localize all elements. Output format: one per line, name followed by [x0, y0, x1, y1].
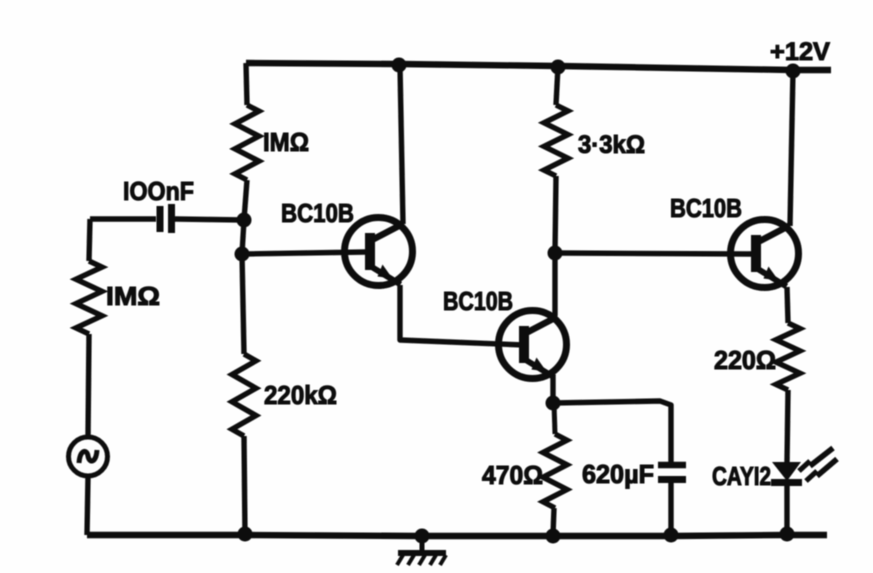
node dot 9: [415, 529, 430, 544]
resistor R6 220: [776, 323, 800, 390]
ground symbol: [397, 536, 446, 565]
bottom rail (0V): [87, 535, 827, 536]
resistor R3 220k: [232, 354, 256, 436]
resistor R2 1M (top): [235, 105, 259, 180]
wire: R1 bottom to source: [88, 334, 89, 437]
svg-text:3·3kΩ: 3·3kΩ: [578, 131, 645, 159]
wire: node B down to Q2 collector: [552, 253, 557, 316]
node dot 11: [664, 528, 679, 543]
node dot 5: [235, 247, 250, 262]
wire: rail down to R4: [556, 66, 558, 105]
LED light arrows: [799, 448, 837, 481]
resistor R5 470: [554, 403, 555, 434]
transistor Q2 BC108: [499, 311, 567, 379]
wire: node B to Q3 base: [555, 253, 752, 254]
wire: R5 bottom to rail: [553, 508, 554, 535]
transistor Q1 BC108: [345, 218, 413, 286]
svg-text:BC10B: BC10B: [670, 193, 742, 223]
wire: node C to capacitor C2: [553, 401, 671, 462]
wire: node A base wire to Q1: [242, 252, 367, 254]
node dot 3: [786, 64, 801, 79]
wire: rail corner down to R2 top: [246, 63, 247, 105]
node dot 2: [551, 60, 566, 75]
svg-text:IMΩ: IMΩ: [106, 281, 160, 311]
wire: Q2 emitter to node C: [550, 376, 555, 403]
wire: C1 right lead to node A: [175, 219, 244, 220]
resistor R4 3.3k: [544, 105, 568, 176]
svg-text:+12V: +12V: [770, 38, 830, 66]
svg-text:470Ω: 470Ω: [482, 460, 543, 490]
wire: Q1 collector up to rail: [400, 66, 403, 224]
wire: C1 left lead: [90, 216, 156, 221]
svg-text:CAYI2: CAYI2: [712, 461, 771, 491]
wire: R3 bottom to ground rail: [244, 436, 245, 535]
node dot 1: [392, 58, 407, 73]
wire: LED to bottom rail: [784, 486, 789, 535]
node dot 10: [546, 529, 561, 544]
wire: R2 bottom to node A: [242, 180, 247, 354]
LED D1 CAY12: [771, 462, 802, 483]
node dot 8: [238, 527, 253, 542]
wire: R6 bottom to LED: [787, 390, 788, 462]
capacitor C1 100nF plates: [160, 204, 172, 233]
wire: Q1 emitter down and right to Q2 base: [400, 285, 524, 345]
svg-text:IOOnF: IOOnF: [123, 176, 194, 206]
wire: source to bottom rail: [87, 476, 88, 535]
svg-text:IMΩ: IMΩ: [263, 127, 309, 157]
svg-text:220Ω: 220Ω: [714, 345, 776, 375]
svg-text:220kΩ: 220kΩ: [264, 380, 337, 410]
wire: Q3 collector up to rail: [790, 70, 793, 226]
node dot 6: [548, 246, 563, 261]
resistor R1 1M (left): [76, 261, 102, 334]
node dot 4: [237, 213, 252, 228]
wire: Q3 emitter down to R6: [787, 287, 788, 323]
signal source SG1: [69, 437, 108, 476]
wire: R4 bottom to node B: [555, 176, 556, 253]
svg-text:BC10B: BC10B: [281, 198, 354, 228]
top rail +12V: [246, 63, 831, 70]
node dot 7: [546, 396, 561, 411]
capacitor C2 620uF: [658, 465, 686, 480]
transistor Q3 BC108: [731, 220, 799, 288]
wire: left branch down from C1: [89, 219, 90, 261]
wire: C2 bottom to rail: [668, 483, 673, 535]
svg-text:BC10B: BC10B: [443, 286, 513, 316]
svg-text:620µF: 620µF: [582, 459, 654, 489]
node dot 12: [780, 527, 795, 542]
